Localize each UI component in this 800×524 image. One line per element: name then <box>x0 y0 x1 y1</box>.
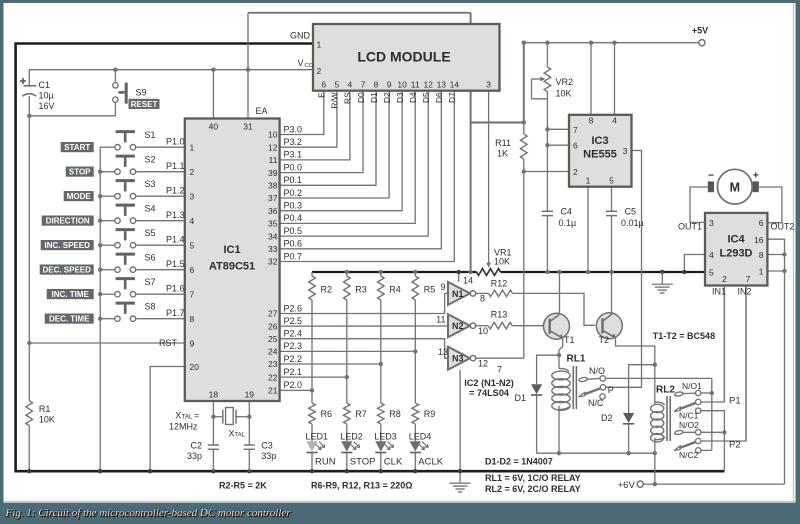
svg-text:R2: R2 <box>321 285 333 295</box>
svg-text:AT89C51: AT89C51 <box>209 261 255 273</box>
svg-text:12MHz: 12MHz <box>169 422 198 432</box>
svg-text:= 74LS04: = 74LS04 <box>469 388 510 398</box>
svg-text:10K: 10K <box>39 415 55 425</box>
svg-text:10: 10 <box>268 130 278 140</box>
svg-text:P1.0: P1.0 <box>166 137 185 147</box>
svg-text:S9: S9 <box>136 88 147 98</box>
svg-text:RL1: RL1 <box>567 354 586 365</box>
svg-text:R13: R13 <box>491 310 508 320</box>
svg-text:N/C: N/C <box>588 398 604 408</box>
svg-text:5: 5 <box>709 268 714 278</box>
svg-text:P0.1: P0.1 <box>284 175 303 185</box>
svg-text:35: 35 <box>268 219 278 229</box>
svg-text:START: START <box>64 143 90 152</box>
svg-text:N3: N3 <box>452 354 464 364</box>
svg-text:P0.2: P0.2 <box>284 188 303 198</box>
svg-text:R5: R5 <box>424 285 436 295</box>
svg-text:7: 7 <box>746 274 751 284</box>
svg-text:T1-T2 = BC548: T1-T2 = BC548 <box>653 331 715 341</box>
svg-text:P2.5: P2.5 <box>284 316 303 326</box>
svg-text:6: 6 <box>759 218 764 228</box>
svg-text:2: 2 <box>722 274 727 284</box>
svg-text:9: 9 <box>387 80 392 90</box>
svg-text:8: 8 <box>480 294 485 304</box>
svg-text:IN1: IN1 <box>712 287 726 297</box>
svg-text:INC. TIME: INC. TIME <box>52 290 90 299</box>
svg-text:34: 34 <box>268 231 278 241</box>
svg-text:LED2: LED2 <box>340 431 363 441</box>
svg-text:TAL: TAL <box>182 414 193 421</box>
svg-text:P2.2: P2.2 <box>284 354 303 364</box>
svg-text:1: 1 <box>586 176 591 186</box>
svg-text:D0: D0 <box>356 92 366 103</box>
svg-text:P3.1: P3.1 <box>284 150 303 160</box>
svg-text:S8: S8 <box>145 302 156 312</box>
svg-text:RESET: RESET <box>131 100 158 109</box>
svg-text:DEC. TIME: DEC. TIME <box>49 315 90 324</box>
svg-text:R1: R1 <box>39 404 51 414</box>
svg-text:10K: 10K <box>494 257 510 267</box>
svg-text:1: 1 <box>190 143 195 153</box>
svg-text:R12: R12 <box>491 278 508 288</box>
svg-text:IN2: IN2 <box>738 287 752 297</box>
svg-text:MODE: MODE <box>67 192 92 201</box>
svg-text:P1.5: P1.5 <box>166 259 185 269</box>
svg-text:6: 6 <box>573 141 578 151</box>
svg-text:4: 4 <box>348 80 353 90</box>
svg-text:3: 3 <box>190 192 195 202</box>
svg-text:6: 6 <box>321 80 326 90</box>
svg-text:IC2 (N1-N2): IC2 (N1-N2) <box>464 378 514 388</box>
svg-text:P1: P1 <box>729 396 741 407</box>
svg-text:8: 8 <box>589 116 594 126</box>
svg-text:T2: T2 <box>599 335 610 345</box>
svg-text:12: 12 <box>423 80 433 90</box>
svg-text:27: 27 <box>268 309 278 319</box>
svg-text:8: 8 <box>759 250 764 260</box>
svg-text:IC1: IC1 <box>223 244 240 256</box>
svg-text:+5V: +5V <box>692 26 708 36</box>
svg-text:P1.1: P1.1 <box>166 161 185 171</box>
svg-text:19: 19 <box>245 390 255 400</box>
svg-text:R7: R7 <box>355 409 367 419</box>
svg-text:R2-R5 = 2K: R2-R5 = 2K <box>219 481 267 491</box>
svg-text:P: P <box>608 385 614 395</box>
svg-text:V: V <box>297 58 303 68</box>
svg-text:−: − <box>708 170 714 181</box>
svg-text:S1: S1 <box>145 130 156 140</box>
svg-text:OUT1: OUT1 <box>678 222 702 232</box>
svg-text:6: 6 <box>190 265 195 275</box>
svg-text:GND: GND <box>290 31 311 41</box>
svg-text:3: 3 <box>623 146 628 156</box>
svg-text:9: 9 <box>440 282 445 292</box>
svg-text:R9: R9 <box>424 409 436 419</box>
svg-text:T1: T1 <box>564 335 575 345</box>
svg-text:24: 24 <box>268 347 278 357</box>
svg-text:16V: 16V <box>39 101 55 111</box>
svg-text:5: 5 <box>609 176 614 186</box>
svg-text:D1: D1 <box>514 393 526 403</box>
svg-text:9: 9 <box>190 338 195 348</box>
svg-text:4: 4 <box>612 116 617 126</box>
svg-text:4: 4 <box>190 216 195 226</box>
svg-text:RL1 = 6V, 1C/O RELAY: RL1 = 6V, 1C/O RELAY <box>485 473 581 483</box>
svg-text:+: + <box>753 170 759 181</box>
svg-text:TAL: TAL <box>234 432 245 439</box>
svg-text:+6V: +6V <box>618 480 636 491</box>
svg-text:P1.4: P1.4 <box>166 235 185 245</box>
svg-text:11: 11 <box>411 80 420 90</box>
svg-text:IC3: IC3 <box>591 135 608 147</box>
svg-text:8: 8 <box>190 314 195 324</box>
svg-text:R11: R11 <box>495 138 511 148</box>
svg-text:2: 2 <box>190 167 195 177</box>
svg-text:D5: D5 <box>421 92 431 103</box>
svg-text:P2.4: P2.4 <box>284 329 303 339</box>
svg-text:5: 5 <box>335 80 340 90</box>
svg-text:S4: S4 <box>145 204 156 214</box>
svg-text:31: 31 <box>243 122 253 132</box>
svg-text:M: M <box>730 180 740 194</box>
svg-text:Fig. 1: Circuit of the microco: Fig. 1: Circuit of the microcontroller-b… <box>5 507 292 519</box>
svg-text:P2.3: P2.3 <box>284 341 303 351</box>
svg-text:20: 20 <box>190 362 200 372</box>
svg-text:16: 16 <box>754 235 764 245</box>
svg-text:22: 22 <box>268 372 278 382</box>
svg-text:10: 10 <box>478 326 488 336</box>
svg-text:23: 23 <box>268 359 278 369</box>
svg-text:=: = <box>194 411 199 421</box>
svg-text:ACLK: ACLK <box>418 456 443 467</box>
svg-text:R8: R8 <box>389 409 401 419</box>
svg-text:RST: RST <box>159 338 178 348</box>
svg-text:S7: S7 <box>145 277 156 287</box>
svg-text:13: 13 <box>438 347 448 357</box>
svg-text:C4: C4 <box>561 207 573 217</box>
svg-text:P2.1: P2.1 <box>284 367 303 377</box>
svg-text:7: 7 <box>361 80 366 90</box>
svg-text:S2: S2 <box>145 155 156 165</box>
svg-text:S6: S6 <box>145 253 156 263</box>
svg-text:36: 36 <box>268 206 278 216</box>
svg-text:N/O1: N/O1 <box>682 381 702 391</box>
svg-text:P1.7: P1.7 <box>166 308 185 318</box>
svg-text:LED1: LED1 <box>306 431 329 441</box>
svg-text:D1-D2 = 1N4007: D1-D2 = 1N4007 <box>485 457 553 467</box>
svg-text:IC4: IC4 <box>727 234 745 246</box>
svg-text:14: 14 <box>450 80 460 90</box>
svg-text:1K: 1K <box>497 149 508 159</box>
svg-text:10K: 10K <box>556 89 572 99</box>
svg-text:7: 7 <box>573 125 578 135</box>
svg-text:RL2 = 6V, 2C/O RELAY: RL2 = 6V, 2C/O RELAY <box>485 484 581 494</box>
svg-text:37: 37 <box>268 193 278 203</box>
svg-text:INC. SPEED: INC. SPEED <box>45 241 91 250</box>
svg-text:N/O: N/O <box>589 366 605 376</box>
svg-text:2: 2 <box>573 167 578 177</box>
svg-text:32: 32 <box>268 257 278 267</box>
svg-text:26: 26 <box>268 321 278 331</box>
svg-text:D3: D3 <box>395 92 405 103</box>
svg-text:D1: D1 <box>369 92 379 103</box>
svg-text:38: 38 <box>268 181 278 191</box>
svg-text:10: 10 <box>397 80 407 90</box>
svg-text:R3: R3 <box>355 285 367 295</box>
svg-text:P2: P2 <box>729 440 741 451</box>
svg-text:21: 21 <box>268 386 278 396</box>
svg-text:P3.2: P3.2 <box>284 137 303 147</box>
svg-text:C3: C3 <box>261 441 273 451</box>
svg-text:R4: R4 <box>389 285 401 295</box>
svg-text:CC: CC <box>305 63 313 69</box>
svg-text:VR2: VR2 <box>556 77 574 87</box>
svg-text:33: 33 <box>268 244 278 254</box>
svg-text:DIRECTION: DIRECTION <box>46 217 90 226</box>
svg-text:10µ: 10µ <box>39 91 54 101</box>
svg-text:X: X <box>175 411 181 421</box>
svg-text:P0.5: P0.5 <box>284 226 303 236</box>
svg-text:STOP: STOP <box>350 456 376 467</box>
svg-text:LED3: LED3 <box>374 431 397 441</box>
svg-text:P0.7: P0.7 <box>284 251 303 261</box>
svg-text:14: 14 <box>463 276 473 286</box>
svg-text:N1: N1 <box>452 289 464 299</box>
svg-text:12: 12 <box>478 359 488 369</box>
svg-text:D2: D2 <box>382 92 392 103</box>
svg-text:25: 25 <box>268 334 278 344</box>
svg-text:DEC. SPEED: DEC. SPEED <box>42 266 91 275</box>
svg-text:C1: C1 <box>39 80 51 90</box>
svg-text:1: 1 <box>317 40 322 50</box>
svg-text:P2.6: P2.6 <box>284 303 303 313</box>
svg-text:RL2: RL2 <box>656 385 675 396</box>
svg-text:P1.6: P1.6 <box>166 284 185 294</box>
svg-text:C5: C5 <box>625 207 637 217</box>
svg-text:CLK: CLK <box>384 456 403 467</box>
svg-text:D4: D4 <box>408 92 418 103</box>
svg-text:P0.4: P0.4 <box>284 213 303 223</box>
svg-text:8: 8 <box>374 80 379 90</box>
svg-text:N/C2: N/C2 <box>679 450 699 460</box>
svg-text:D2: D2 <box>601 413 613 423</box>
svg-text:39: 39 <box>268 168 278 178</box>
svg-text:P3.0: P3.0 <box>284 124 303 134</box>
svg-text:1: 1 <box>759 267 764 277</box>
svg-text:3: 3 <box>709 218 714 228</box>
svg-text:S5: S5 <box>145 228 156 238</box>
svg-text:P1.3: P1.3 <box>166 210 185 220</box>
svg-text:2: 2 <box>317 66 322 76</box>
svg-text:33p: 33p <box>187 451 202 461</box>
svg-text:LED4: LED4 <box>409 431 432 441</box>
svg-text:R6: R6 <box>321 409 333 419</box>
svg-text:OUT2: OUT2 <box>771 222 795 232</box>
svg-text:P0.6: P0.6 <box>284 239 303 249</box>
svg-text:7: 7 <box>190 290 195 300</box>
svg-text:P0.0: P0.0 <box>284 162 303 172</box>
svg-text:L293D: L293D <box>719 248 752 260</box>
svg-text:LCD MODULE: LCD MODULE <box>357 49 450 65</box>
svg-text:STOP: STOP <box>69 168 91 177</box>
svg-text:18: 18 <box>209 390 219 400</box>
svg-text:3: 3 <box>486 80 491 90</box>
svg-text:D6: D6 <box>434 92 444 103</box>
svg-text:C2: C2 <box>190 441 202 451</box>
svg-text:P1.2: P1.2 <box>166 186 185 196</box>
svg-text:12: 12 <box>268 142 278 152</box>
svg-text:D7: D7 <box>447 92 457 103</box>
svg-text:S3: S3 <box>145 179 156 189</box>
svg-text:RS: RS <box>343 92 353 104</box>
svg-text:40: 40 <box>209 122 219 132</box>
svg-text:11: 11 <box>269 155 278 165</box>
svg-text:EA: EA <box>256 106 268 116</box>
svg-text:N2: N2 <box>452 321 464 331</box>
svg-text:E: E <box>317 92 327 98</box>
svg-text:0.1µ: 0.1µ <box>559 218 577 228</box>
svg-text:R6-R9, R12, R13 = 220Ω: R6-R9, R12, R13 = 220Ω <box>311 481 413 491</box>
svg-text:0.01µ: 0.01µ <box>621 218 644 228</box>
svg-text:7: 7 <box>497 365 502 375</box>
svg-text:P2.0: P2.0 <box>284 380 303 390</box>
svg-text:RUN: RUN <box>315 456 336 467</box>
svg-text:R/W: R/W <box>330 92 340 108</box>
svg-text:33p: 33p <box>261 451 276 461</box>
svg-text:5: 5 <box>190 241 195 251</box>
svg-text:13: 13 <box>437 80 447 90</box>
svg-text:11: 11 <box>436 315 445 325</box>
svg-text:4: 4 <box>709 250 714 260</box>
svg-text:NE555: NE555 <box>583 149 617 161</box>
svg-text:P0.3: P0.3 <box>284 201 303 211</box>
svg-text:N/O2: N/O2 <box>679 420 699 430</box>
